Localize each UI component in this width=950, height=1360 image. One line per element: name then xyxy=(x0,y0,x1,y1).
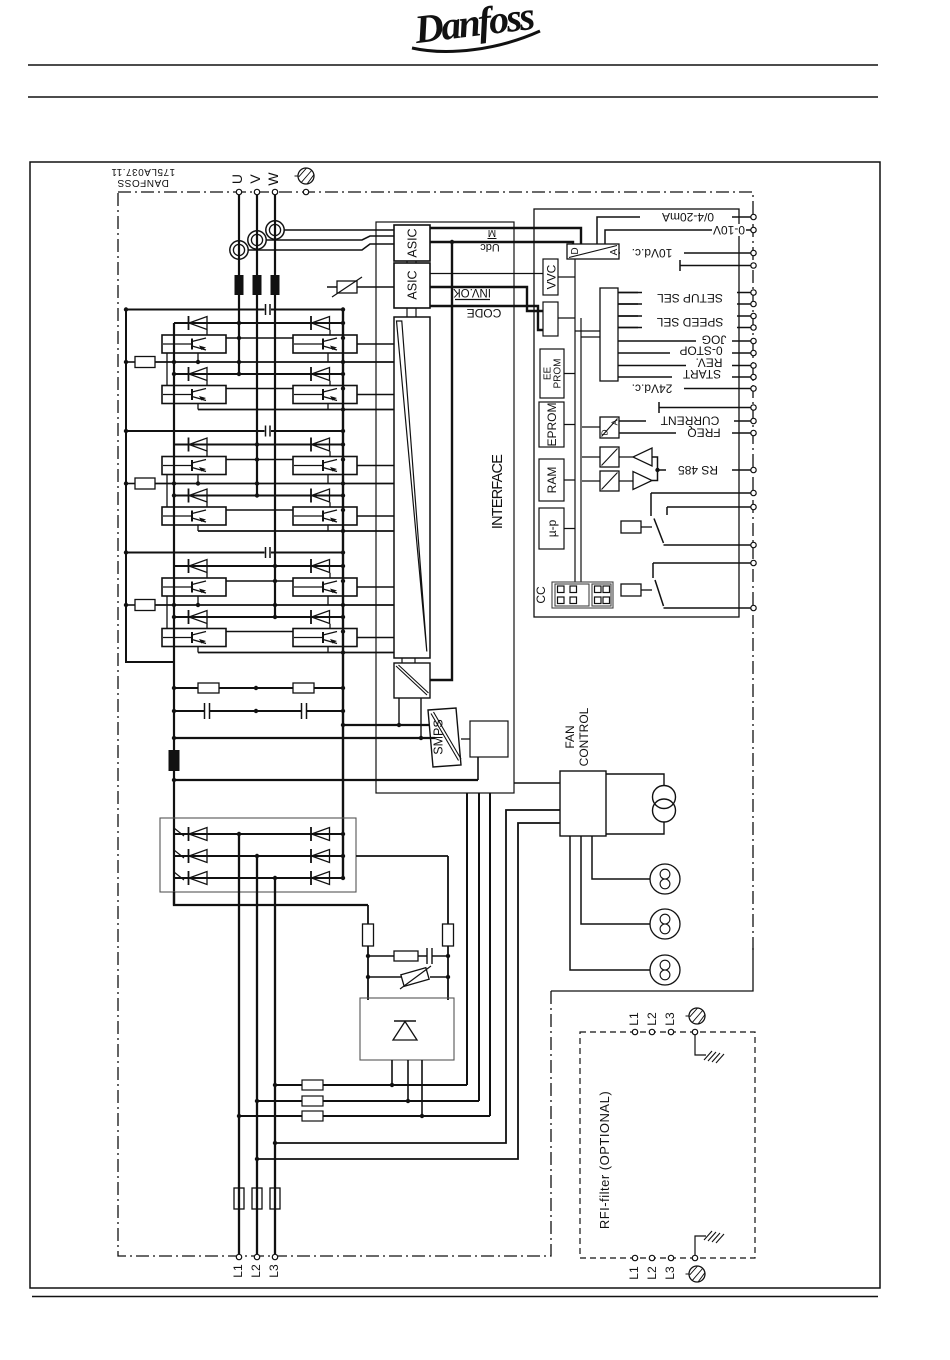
inverter leg group 2 (phase V) xyxy=(124,426,394,534)
interface wedge xyxy=(397,321,427,652)
control logic block xyxy=(543,302,558,336)
DC link capacitor row xyxy=(172,703,345,719)
wire Udc sense vertical xyxy=(430,242,452,680)
svg-text:VVC: VVC xyxy=(545,264,559,289)
FAN CONTROL box xyxy=(560,771,606,836)
svg-text:EPROM: EPROM xyxy=(545,402,559,446)
RS485 optocoupler 2 xyxy=(600,471,619,491)
mains fuse F3 xyxy=(270,1188,280,1209)
fan supply tap L2 xyxy=(257,823,560,1159)
wire 10Vd.c. xyxy=(619,252,751,254)
footer rule xyxy=(32,1296,878,1298)
svg-text:CONTROL: CONTROL xyxy=(577,707,591,766)
wire DC+ to SMPS xyxy=(343,724,429,726)
terminal U xyxy=(236,189,241,194)
svg-text:Udc: Udc xyxy=(480,241,500,253)
wire rect aux right xyxy=(356,855,448,857)
wire JOG xyxy=(618,340,751,342)
RFI top PE symbol xyxy=(686,1008,706,1024)
svg-text:L1: L1 xyxy=(231,1264,245,1278)
svg-text:D: D xyxy=(570,247,581,254)
svg-text:L3: L3 xyxy=(663,1266,677,1280)
bleeder resistor row xyxy=(172,683,345,693)
svg-text:INTERFACE: INTERFACE xyxy=(490,454,506,529)
DC+ rail xyxy=(342,310,344,879)
relay K2 xyxy=(621,563,751,608)
link ASIC2-interface xyxy=(407,308,416,317)
bus line 2 xyxy=(580,318,582,582)
mains column L1 xyxy=(238,834,240,1254)
fuse row L3 xyxy=(275,793,467,1085)
fan transformer xyxy=(606,774,676,834)
svg-text:L3: L3 xyxy=(267,1264,281,1278)
wire M heavy xyxy=(430,228,581,244)
wire INV.OK heavy xyxy=(430,287,543,311)
wire 0-STOP xyxy=(618,352,751,354)
fuse row L1 xyxy=(239,793,490,1116)
node dots phase V / group2 xyxy=(255,442,259,446)
varistor branch xyxy=(366,966,450,989)
svg-text:V: V xyxy=(247,174,263,184)
wire W column xyxy=(274,195,276,618)
wire sensor V to ASIC xyxy=(266,236,394,240)
wire DC- to SMPS xyxy=(174,737,435,739)
DAC 1 box xyxy=(567,244,620,259)
svg-text:PROM: PROM xyxy=(553,359,564,389)
chassis ground top xyxy=(704,1051,724,1063)
wire RS 485 xyxy=(652,457,751,481)
diagonal stubs left rail xyxy=(174,828,184,880)
svg-text:SETUP SEL: SETUP SEL xyxy=(657,291,723,305)
CC connector xyxy=(534,582,613,608)
svg-text:M: M xyxy=(488,227,496,238)
svg-text:A: A xyxy=(609,248,620,255)
svg-text:FAN: FAN xyxy=(563,725,577,748)
svg-text:FREQ: FREQ xyxy=(687,426,720,440)
SMPS aux box xyxy=(470,721,508,757)
DAC 2 box (freq/current outputs) xyxy=(600,417,620,438)
INTERFACE box U3 xyxy=(394,317,430,658)
terminal PE xyxy=(303,189,308,194)
card supply line to fan control xyxy=(514,782,560,784)
rectifier row 1 xyxy=(174,833,343,835)
svg-text:0-STOP: 0-STOP xyxy=(679,344,722,358)
fan M2 wiring xyxy=(581,836,650,924)
header rule 1 xyxy=(28,64,878,66)
mains column L3 xyxy=(274,878,276,1254)
Danfoss logo xyxy=(411,0,540,52)
svg-text:175LA037.11: 175LA037.11 xyxy=(111,166,175,177)
uP block xyxy=(539,508,564,549)
RFI top earth wire xyxy=(695,1035,706,1055)
svg-text:ASIC: ASIC xyxy=(406,228,420,257)
enclosure dash-dot frame xyxy=(118,192,753,1256)
svg-text:D: D xyxy=(600,429,610,435)
label M (rotated 180) xyxy=(488,227,496,238)
RFI filter dashed box xyxy=(580,1032,755,1258)
ASIC U1 xyxy=(394,225,430,261)
svg-text:L2: L2 xyxy=(645,1266,659,1280)
svg-text:A: A xyxy=(610,419,620,425)
iso amp outputs xyxy=(399,698,421,738)
fan M2 xyxy=(650,909,680,939)
current sensor V xyxy=(248,231,266,249)
wire ASIC2 to VVC xyxy=(430,273,543,275)
resistor R left xyxy=(367,905,369,1000)
wire CODE heavy xyxy=(430,306,543,330)
wire DC- bottom xyxy=(174,892,368,905)
svg-text:L1: L1 xyxy=(627,1012,641,1026)
svg-text:0-10V: 0-10V xyxy=(713,223,745,237)
RS485 optocoupler 1 xyxy=(600,447,619,467)
label SETUP SEL xyxy=(657,291,723,305)
svg-text:L1: L1 xyxy=(627,1266,641,1280)
svg-text:RFI-filter (OPTIONAL): RFI-filter (OPTIONAL) xyxy=(597,1091,612,1229)
mains fuse F1 xyxy=(234,1188,244,1209)
fan M3 xyxy=(650,955,680,985)
wire 0/4-20mA xyxy=(597,217,751,244)
mains column L2 xyxy=(256,856,258,1254)
supply rail to fan control xyxy=(174,779,478,781)
fan M1 xyxy=(650,864,680,894)
svg-text:RAM: RAM xyxy=(545,467,559,494)
svg-text:L2: L2 xyxy=(249,1264,263,1278)
mains terminals xyxy=(236,1254,241,1259)
header rule 2 xyxy=(28,96,878,98)
IO port block xyxy=(600,288,618,381)
svg-text:24Vd.c.: 24Vd.c. xyxy=(632,382,673,396)
heatsink thermistor xyxy=(327,277,394,297)
svg-text:DANFOSS: DANFOSS xyxy=(117,177,169,188)
svg-text:0/4-20mA: 0/4-20mA xyxy=(662,210,714,224)
mains fuse F2 xyxy=(252,1188,262,1209)
control card box xyxy=(534,209,739,617)
svg-text:CODE: CODE xyxy=(467,306,502,320)
stubs left of labels xyxy=(618,293,638,328)
power card box xyxy=(376,222,514,793)
svg-text:L2: L2 xyxy=(645,1012,659,1026)
VVC block xyxy=(543,259,558,295)
rectifier row 2 xyxy=(174,855,343,857)
svg-text:L3: L3 xyxy=(663,1012,677,1026)
DC choke (filled) xyxy=(169,750,180,771)
fan M1 wiring xyxy=(592,836,650,879)
wire 24Vd.c. xyxy=(640,388,751,390)
ASIC U2 xyxy=(394,263,430,308)
wire sensor U to ASIC xyxy=(248,244,394,250)
fan supply tap L3 xyxy=(275,810,560,1143)
EPROM block xyxy=(539,402,564,447)
outer drawing box xyxy=(30,162,880,1288)
inductor U (filled) xyxy=(235,275,244,295)
logic bus stub xyxy=(558,317,575,319)
RFI top terminals xyxy=(632,1029,637,1034)
bus line 1 xyxy=(574,259,576,582)
RC branch xyxy=(368,948,450,964)
label SPEED SEL xyxy=(656,315,723,329)
DC- inner rail xyxy=(173,323,175,905)
wire Udc heavy xyxy=(430,242,573,244)
fuse row L2 xyxy=(257,793,479,1101)
svg-text:RS 485: RS 485 xyxy=(678,463,718,477)
svg-text:ASIC: ASIC xyxy=(406,270,420,299)
svg-text:10Vd.c.: 10Vd.c. xyxy=(632,246,673,260)
svg-text:INV.OK: INV.OK xyxy=(453,286,491,298)
wires opto-triangles xyxy=(619,457,633,481)
svg-text:W: W xyxy=(265,172,281,186)
RAM block xyxy=(539,459,564,501)
inverter leg group 3 (phase W) xyxy=(124,547,394,655)
rectifier box xyxy=(160,818,356,892)
SMPS block xyxy=(428,708,461,767)
current sensor W xyxy=(266,221,284,239)
svg-text:U: U xyxy=(229,174,245,184)
inverter leg group 1 (phase U) xyxy=(124,304,394,412)
isolation amp (Udc measure) xyxy=(394,658,430,698)
wire FREQ xyxy=(619,432,751,434)
SCR box stubs to mains xyxy=(392,1060,422,1116)
wire aux box down to supply line xyxy=(477,757,479,780)
SCR softcharge box xyxy=(360,998,454,1060)
fan M3 wiring xyxy=(570,836,650,970)
inductor W (filled) xyxy=(271,275,280,295)
wire CURRENT xyxy=(619,420,751,422)
RFI bottom earth wire xyxy=(695,1236,706,1255)
node dots phase U / group1 xyxy=(237,321,241,325)
svg-text:µ-p: µ-p xyxy=(545,519,559,537)
DC- left rail outer xyxy=(126,310,174,663)
current sensor U xyxy=(230,241,248,259)
RFI bottom PE symbol xyxy=(686,1266,706,1282)
wire REV. xyxy=(618,365,751,367)
RS485 driver triangles xyxy=(633,448,652,466)
wire SMPS to aux box xyxy=(461,738,470,740)
relay K1 xyxy=(621,493,751,545)
chassis ground bottom xyxy=(704,1231,724,1243)
PE ground symbol top xyxy=(295,168,315,184)
wire sensor W to ASIC xyxy=(284,229,394,231)
memory bus stubs xyxy=(564,374,575,529)
bus to IO stubs xyxy=(575,331,600,337)
svg-text:CURRENT: CURRENT xyxy=(660,414,719,428)
wire 0-10V xyxy=(605,230,751,244)
wire U column xyxy=(238,195,240,375)
terminal W xyxy=(272,189,277,194)
node dots phase W / group3 xyxy=(273,564,277,568)
rectifier row 3 xyxy=(174,877,343,879)
common terminal T2 xyxy=(659,402,751,413)
link ASIC1-ASIC2 xyxy=(407,261,416,263)
node Udc tap xyxy=(450,240,454,244)
terminal V xyxy=(254,189,259,194)
inductor V (filled) xyxy=(253,275,262,295)
wire START xyxy=(618,376,751,378)
resistor R right xyxy=(447,856,449,1000)
wire V column xyxy=(256,195,258,496)
svg-text:CC: CC xyxy=(534,586,548,604)
title block text DANFOSS 175LA037.11 (rotated 180) xyxy=(111,166,175,188)
label CODE (rotated 180) xyxy=(467,306,502,320)
label Udc (rotated 180) xyxy=(480,241,500,253)
label INV.OK (rotated 180, underlined) xyxy=(453,286,491,298)
VVC bus stub xyxy=(558,276,575,278)
digital input stub lines + terminals xyxy=(618,293,751,328)
common terminal T1 xyxy=(680,260,751,271)
svg-text:SPEED SEL: SPEED SEL xyxy=(656,315,723,329)
svg-text:START: START xyxy=(682,367,721,381)
EE PROM block xyxy=(540,349,564,398)
RFI bottom terminals xyxy=(632,1255,637,1260)
